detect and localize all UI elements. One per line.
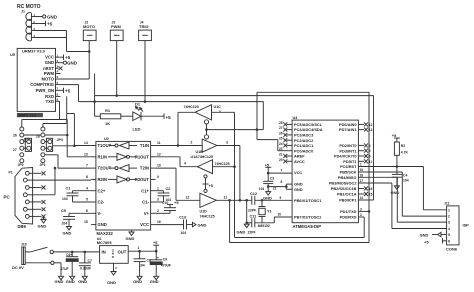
junction J4 on line B — [144, 100, 147, 103]
svg-text:U1B: U1B — [196, 150, 204, 154]
svg-text:IN: IN — [102, 250, 106, 255]
svg-text:PWM: PWM — [44, 71, 55, 76]
svg-text:JP0: JP0 — [18, 163, 24, 167]
svg-text:47UF: 47UF — [60, 267, 68, 271]
svg-text:C13: C13 — [179, 215, 186, 219]
svg-text:28: 28 — [279, 121, 283, 125]
wire PWM pin vertical down to R1 — [94, 74, 96, 117]
svg-text:U1A74HC125: U1A74HC125 — [191, 155, 213, 159]
svg-text:V-: V- — [98, 211, 103, 216]
svg-text:6: 6 — [86, 209, 88, 213]
svg-text:104: 104 — [403, 179, 409, 183]
svg-text:25: 25 — [279, 137, 283, 141]
svg-text:C11: C11 — [250, 215, 257, 219]
ground GND below DB9 pin column — [38, 216, 47, 228]
ground GND at C3 — [263, 192, 272, 201]
connector J10 DC 9V jack — [12, 242, 27, 269]
wire MOTO net (J2 down, junction with J1 wire, to MOTO pin) — [61, 41, 90, 79]
buffer T1 inside MAX232 — [109, 145, 115, 147]
svg-text:U4: U4 — [293, 116, 299, 120]
svg-text:104: 104 — [259, 187, 265, 191]
junction outer ring top — [228, 199, 231, 202]
wire T1IN to U1B input — [156, 145, 203, 147]
svg-text:PWR_ON: PWR_ON — [36, 88, 54, 93]
svg-text:PB0/ICP1: PB0/ICP1 — [339, 198, 357, 203]
wire X2 net W2 — [247, 217, 292, 223]
jumper JP2 — [13, 127, 32, 157]
resistor R1 1K — [95, 108, 121, 126]
svg-text:C4: C4 — [403, 173, 407, 177]
svg-text:URM37 V3.0: URM37 V3.0 — [22, 49, 46, 54]
wire DB9 pin row to R2IN — [33, 179, 91, 181]
connector P1 DB9 PC — [4, 168, 42, 230]
connector J11 CON6 ISP — [441, 201, 469, 251]
svg-text:GND: GND — [98, 222, 107, 227]
ground GND at C9 — [150, 276, 159, 284]
svg-text:R1IN: R1IN — [98, 154, 108, 159]
svg-text:MAX232: MAX232 — [97, 231, 114, 236]
wire jumper JP3 to T2OUT — [45, 155, 91, 168]
buffer T2 inside MAX232 — [109, 167, 115, 169]
svg-text:1: 1 — [157, 186, 159, 190]
svg-text:PC4/ADC4/SDA: PC4/ADC4/SDA — [294, 127, 323, 132]
svg-text:GND: GND — [38, 223, 47, 228]
svg-text:C1: C1 — [66, 187, 71, 191]
svg-text:4: 4 — [86, 186, 88, 190]
svg-text:COMP/TRIG: COMP/TRIG — [30, 82, 54, 87]
svg-text:9: 9 — [280, 196, 282, 200]
svg-text:TRIG: TRIG — [139, 24, 149, 29]
svg-text:LED: LED — [133, 127, 141, 132]
svg-text:14: 14 — [360, 196, 364, 200]
svg-text:GND: GND — [237, 229, 246, 234]
svg-text:24: 24 — [279, 142, 283, 146]
svg-text:C2-: C2- — [98, 200, 105, 205]
svg-text:6: 6 — [448, 239, 450, 243]
svg-text:12: 12 — [157, 152, 161, 156]
svg-text:1K: 1K — [105, 121, 110, 126]
wire jack return to ground — [25, 261, 61, 276]
capacitor C12 22PF — [248, 192, 257, 212]
svg-text:DC 9V: DC 9V — [12, 265, 24, 270]
pin numbers right connected — [360, 163, 364, 218]
svg-text:22: 22 — [273, 187, 277, 191]
svg-text:+5: +5 — [65, 88, 71, 93]
junction line C / enable — [256, 128, 259, 131]
svg-text:3: 3 — [448, 221, 450, 225]
junction gnd pins — [285, 185, 288, 188]
connector J2 MOTO — [83, 20, 96, 40]
svg-text:R2: R2 — [401, 144, 405, 148]
power +5 at D1 — [141, 114, 171, 120]
svg-text:C3: C3 — [270, 176, 274, 180]
junction +5 to VCC — [267, 172, 270, 175]
svg-text:PD7/AIN1: PD7/AIN1 — [339, 127, 357, 132]
buffer U1B 74HC125 — [191, 130, 229, 160]
svg-text:GND: GND — [78, 279, 87, 284]
wire SCK to ISP pin2 — [358, 172, 446, 216]
svg-text:GND: GND — [45, 60, 54, 65]
svg-text:16: 16 — [157, 220, 161, 224]
capacitor C13 at VCC with ground — [156, 215, 207, 235]
svg-text:MOTO: MOTO — [42, 77, 55, 82]
svg-text:GND: GND — [198, 223, 207, 228]
svg-text:PC0/ADC0: PC0/ADC0 — [294, 148, 313, 153]
power +5 at J1 pin2 — [37, 21, 53, 27]
svg-text:74HC125: 74HC125 — [215, 162, 230, 166]
svg-text:MOTO: MOTO — [83, 24, 95, 29]
capacitor C4 104 — [392, 167, 409, 186]
wire line B COMP/TRIG net — [61, 41, 264, 130]
svg-text:U1D: U1D — [200, 210, 208, 214]
svg-text:T2IN: T2IN — [140, 166, 149, 171]
svg-text:19: 19 — [360, 168, 364, 172]
svg-text:C5: C5 — [61, 209, 66, 213]
wire MOSI to ISP pin4 — [358, 183, 446, 229]
wire TXD staircase to MAX232 and jumpers — [22, 101, 91, 157]
svg-text:PB1/OC1A: PB1/OC1A — [337, 192, 357, 197]
svg-text:7: 7 — [281, 169, 283, 173]
svg-text:+5: +5 — [65, 55, 71, 60]
wire line C buffer-enable net — [207, 92, 370, 242]
svg-text:11: 11 — [224, 195, 228, 199]
svg-text:22PF: 22PF — [248, 230, 256, 234]
svg-text:JP2: JP2 — [23, 138, 29, 142]
wire U1B output down — [217, 146, 240, 201]
svg-text:+5: +5 — [47, 22, 53, 27]
svg-text:PD1/TXD: PD1/TXD — [340, 209, 357, 214]
svg-text:9: 9 — [157, 175, 159, 179]
power +5 output rail — [153, 241, 159, 251]
svg-text:C1+: C1+ — [141, 188, 149, 193]
wire crystal cap ground tie — [246, 200, 248, 223]
wire U1D output / X1 net W1 — [216, 199, 292, 201]
svg-text:PD3/INT1: PD3/INT1 — [339, 148, 357, 153]
junction J3 on line A — [115, 94, 118, 97]
ground GND below C5 — [63, 227, 72, 236]
power +5 and capacitor C3 at VCC — [259, 163, 292, 191]
svg-text:TXD: TXD — [46, 99, 54, 104]
buffer U1A 74HC125 — [156, 157, 235, 184]
svg-text:11: 11 — [157, 141, 161, 145]
svg-text:JP3: JP3 — [57, 138, 63, 142]
junction gnd vertical — [267, 185, 270, 188]
ground GND at C7 — [78, 276, 87, 284]
capacitor C2 104 — [156, 187, 172, 202]
svg-text:GND: GND — [47, 15, 58, 20]
svg-text:74HC125: 74HC125 — [184, 105, 199, 109]
switch S1 power — [25, 247, 99, 253]
svg-text:AREF: AREF — [294, 154, 305, 159]
svg-text:T1IN: T1IN — [140, 143, 149, 148]
svg-text:DB9: DB9 — [18, 224, 27, 229]
svg-text:18: 18 — [360, 173, 364, 177]
svg-text:GND: GND — [294, 187, 303, 192]
no-connect X marks on DB9 pins — [42, 171, 46, 218]
ground GND jack return — [55, 276, 64, 284]
svg-text:GND: GND — [126, 236, 135, 241]
svg-text:GND: GND — [55, 279, 64, 284]
svg-text:JP1: JP1 — [40, 163, 46, 167]
junction PD1 tap — [368, 210, 371, 213]
buffer U1D 74HC125 — [156, 168, 228, 218]
sensor module U5 URM37 V3.0 — [10, 48, 61, 111]
svg-text:4: 4 — [184, 162, 186, 166]
svg-text:10: 10 — [157, 164, 161, 168]
svg-text:20: 20 — [279, 158, 283, 162]
capacitor C6 47UF — [60, 252, 78, 276]
svg-text:OUT: OUT — [117, 250, 126, 255]
svg-text:ATMEGA8-DIP: ATMEGA8-DIP — [293, 224, 322, 229]
svg-text:MC7805: MC7805 — [97, 240, 113, 245]
svg-text:26: 26 — [279, 131, 283, 135]
svg-text:GND: GND — [66, 279, 75, 284]
svg-text:0.33UF: 0.33UF — [80, 267, 91, 271]
svg-text:1: 1 — [138, 246, 140, 250]
svg-text:C2: C2 — [166, 187, 171, 191]
svg-text:3: 3 — [157, 198, 159, 202]
svg-text:6: 6 — [369, 155, 371, 159]
ground GND at C6 — [66, 276, 75, 284]
svg-text:J1: J1 — [21, 10, 25, 14]
capacitor C10 to +5 — [156, 200, 180, 214]
ground GND at C8 — [133, 276, 142, 284]
junction enable net — [205, 128, 208, 131]
svg-text:R1: R1 — [105, 108, 111, 113]
junction U1C output on T1IN wire — [177, 144, 180, 147]
svg-text:1: 1 — [448, 208, 450, 212]
no-connect X at nRST — [59, 66, 63, 70]
buffer R2 inside MAX232 — [108, 178, 117, 180]
svg-text:PD2/INT0: PD2/INT0 — [339, 143, 356, 148]
ground GND at ISP pin5 — [420, 232, 442, 237]
svg-text:104: 104 — [181, 231, 187, 235]
buffer U1C 74HC125 — [178, 105, 235, 146]
svg-text:2: 2 — [448, 215, 450, 219]
capacitor C1 104 — [62, 187, 91, 203]
svg-text:J11: J11 — [444, 201, 450, 205]
svg-text:4: 4 — [369, 144, 371, 148]
wire outer ring PD1 net — [230, 200, 369, 242]
connector J4 TRIG — [139, 20, 152, 40]
junction C8 — [138, 250, 141, 253]
svg-text:PB3/MOSI/OC2: PB3/MOSI/OC2 — [329, 181, 358, 186]
capacitor C11 22PF — [250, 215, 257, 228]
svg-text:22PF: 22PF — [248, 208, 256, 212]
svg-text:PC1/ADC1: PC1/ADC1 — [294, 143, 314, 148]
label RC MOTO / J1 — [17, 4, 41, 38]
svg-text:C2+: C2+ — [98, 188, 106, 193]
svg-text:GND: GND — [63, 231, 72, 236]
svg-text:PB7/X2/TOSC2: PB7/X2/TOSC2 — [294, 215, 322, 220]
svg-text:+5: +5 — [265, 163, 269, 167]
svg-text:+5: +5 — [424, 239, 429, 244]
svg-text:C9: C9 — [163, 257, 167, 261]
ground GND at J1 pin1 — [37, 15, 58, 20]
svg-text:470UF: 470UF — [161, 263, 171, 267]
wire MISO to ISP pin3 — [358, 177, 446, 222]
wire line A PWM net horizontal — [95, 41, 374, 200]
junction PWM vertical on line B — [93, 100, 96, 103]
diode D1 LED — [121, 102, 143, 132]
svg-text:PC: PC — [4, 195, 11, 200]
svg-text:CON6: CON6 — [446, 247, 458, 252]
svg-text:+5: +5 — [153, 241, 157, 245]
svg-text:PB6/X1/TOSC1: PB6/X1/TOSC1 — [294, 198, 322, 203]
svg-text:GND: GND — [263, 195, 272, 200]
buffer R1 inside MAX232 — [108, 156, 117, 158]
svg-text:23: 23 — [279, 147, 283, 151]
junction staircase taps — [66, 134, 69, 137]
svg-text:5: 5 — [369, 149, 371, 153]
svg-text:VCC: VCC — [45, 55, 54, 60]
svg-text:2: 2 — [360, 213, 362, 217]
svg-text:4.7K: 4.7K — [401, 151, 409, 155]
svg-text:+5: +5 — [166, 115, 172, 120]
svg-text:74HC125: 74HC125 — [200, 215, 215, 219]
svg-text:7: 7 — [86, 164, 88, 168]
svg-text:10: 10 — [278, 213, 282, 217]
svg-text:17: 17 — [360, 179, 364, 183]
junction U1A input on inner ring — [233, 165, 236, 168]
svg-text:3: 3 — [360, 208, 362, 212]
svg-text:12: 12 — [186, 195, 190, 199]
connector J3 PWM — [110, 20, 123, 40]
wire JP3 right pins to serial staircase — [24, 135, 75, 146]
svg-text:C12: C12 — [250, 192, 257, 196]
jumper JP3 — [36, 127, 63, 157]
wire DB9 pin row to T2OUT — [33, 168, 55, 195]
svg-text:PB4/MISO: PB4/MISO — [338, 175, 357, 180]
svg-text:R2IN: R2IN — [98, 177, 108, 182]
svg-text:+5: +5 — [209, 184, 213, 188]
junction C9 — [155, 250, 158, 253]
svg-text:URM37 V3.0: URM37 V3.0 — [18, 113, 36, 117]
svg-text:21: 21 — [279, 153, 283, 157]
IC U2 MAX232 — [84, 137, 161, 236]
label URM37 caption — [17, 113, 43, 118]
svg-text:5: 5 — [86, 198, 88, 202]
svg-text:PC3/ADC3: PC3/ADC3 — [294, 133, 314, 138]
ground GND at U3 — [107, 272, 116, 285]
junction gnd tie top — [245, 199, 248, 202]
wire U3 OUT to +5 rail — [128, 246, 156, 251]
junction gnd tie bottom — [245, 222, 248, 225]
junction U1B output on W1 — [239, 199, 242, 202]
power +5 at PWR_ON — [61, 88, 71, 94]
jumper JP0 JP1 bottom pins — [18, 159, 46, 167]
regulator U3 MC7805 — [97, 237, 128, 272]
ground GND below MAX232 — [126, 230, 135, 241]
capacitor C5 104 — [61, 209, 91, 227]
junction C6 — [71, 251, 74, 254]
svg-text:16: 16 — [369, 187, 373, 191]
svg-text:PD4/XCK/T0: PD4/XCK/T0 — [334, 154, 357, 159]
svg-text:27: 27 — [279, 126, 283, 130]
svg-text:15: 15 — [84, 220, 88, 224]
power +5 at ISP pin6 — [424, 238, 443, 244]
svg-text:2: 2 — [157, 209, 159, 213]
junction R2 on RST — [396, 165, 399, 168]
svg-text:V+: V+ — [144, 211, 150, 216]
svg-text:3: 3 — [226, 141, 228, 145]
resistor R2 4.7K pull-up — [392, 134, 409, 167]
junction MOTO net — [88, 50, 91, 53]
svg-text:D: D — [112, 255, 115, 259]
svg-text:13: 13 — [369, 128, 373, 132]
svg-text:C7: C7 — [88, 259, 92, 263]
svg-text:1: 1 — [360, 163, 362, 167]
svg-text:C1-: C1- — [142, 200, 149, 205]
svg-text:GND: GND — [107, 280, 116, 285]
svg-text:PC6/RST: PC6/RST — [340, 164, 357, 169]
svg-text:C10: C10 — [162, 201, 168, 205]
svg-text:104: 104 — [62, 197, 68, 201]
svg-text:11: 11 — [369, 160, 373, 164]
svg-text:+5: +5 — [392, 134, 396, 138]
svg-text:14: 14 — [84, 141, 88, 145]
wire J1 pins 3/4 to MOTO net — [37, 31, 90, 52]
no-connect X pins right ATMEGA8 — [358, 122, 372, 196]
crystal Y1 4M9152 — [258, 200, 272, 228]
svg-text:GND: GND — [67, 61, 78, 66]
svg-text:Y1: Y1 — [267, 209, 272, 213]
svg-text:2: 2 — [191, 141, 193, 145]
junction T2OUT net — [54, 167, 57, 170]
svg-text:GND: GND — [420, 232, 429, 237]
wire PB0/ICP1 stub to line A — [358, 199, 364, 201]
wire GND pins 8/22 to ground — [268, 184, 292, 189]
svg-text:+: + — [157, 256, 160, 260]
wire inner ring PD0 net — [235, 112, 365, 237]
ground GND crystal caps — [237, 223, 256, 235]
svg-text:J10: J10 — [21, 242, 27, 246]
svg-text:12: 12 — [369, 123, 373, 127]
ground GND at C4 — [391, 186, 400, 195]
ground GND at URM37 GND pin — [61, 61, 78, 66]
svg-text:U5: U5 — [10, 53, 15, 57]
capacitor C7 0.33UF — [79, 252, 92, 276]
svg-text:PD0/RXD: PD0/RXD — [340, 215, 357, 220]
svg-text:4: 4 — [448, 227, 450, 231]
svg-text:D1: D1 — [135, 102, 141, 107]
svg-text:U2: U2 — [104, 137, 109, 141]
no-connect X pins left ATMEGA8 — [279, 121, 292, 163]
capacitor C8 104 — [134, 251, 151, 276]
svg-text:ISP: ISP — [463, 223, 470, 228]
svg-text:GND: GND — [133, 279, 142, 284]
svg-text:C6+: C6+ — [66, 253, 72, 257]
svg-text:GND: GND — [150, 279, 159, 284]
svg-text:PWM: PWM — [111, 24, 121, 29]
svg-text:13: 13 — [84, 152, 88, 156]
IC U4 ATMEGA8-DIP — [292, 116, 358, 229]
junction C7 — [84, 251, 87, 254]
svg-text:15: 15 — [369, 193, 373, 197]
svg-text:U1C: U1C — [214, 105, 222, 109]
svg-text:5: 5 — [448, 233, 450, 237]
junction Y1 top on W1 — [261, 199, 264, 202]
svg-text:AVCC: AVCC — [294, 159, 305, 164]
svg-text:104: 104 — [62, 221, 68, 225]
svg-text:26: 26 — [13, 133, 17, 137]
wire RXD staircase to MAX232 and jumpers — [43, 96, 91, 145]
svg-text:PB5/SCK: PB5/SCK — [340, 170, 357, 175]
svg-text:2: 2 — [115, 266, 117, 270]
wire RST net — [358, 167, 446, 210]
power +5 shared enable U1A/U1D — [203, 184, 213, 188]
capacitor C9 470UF — [150, 251, 171, 276]
